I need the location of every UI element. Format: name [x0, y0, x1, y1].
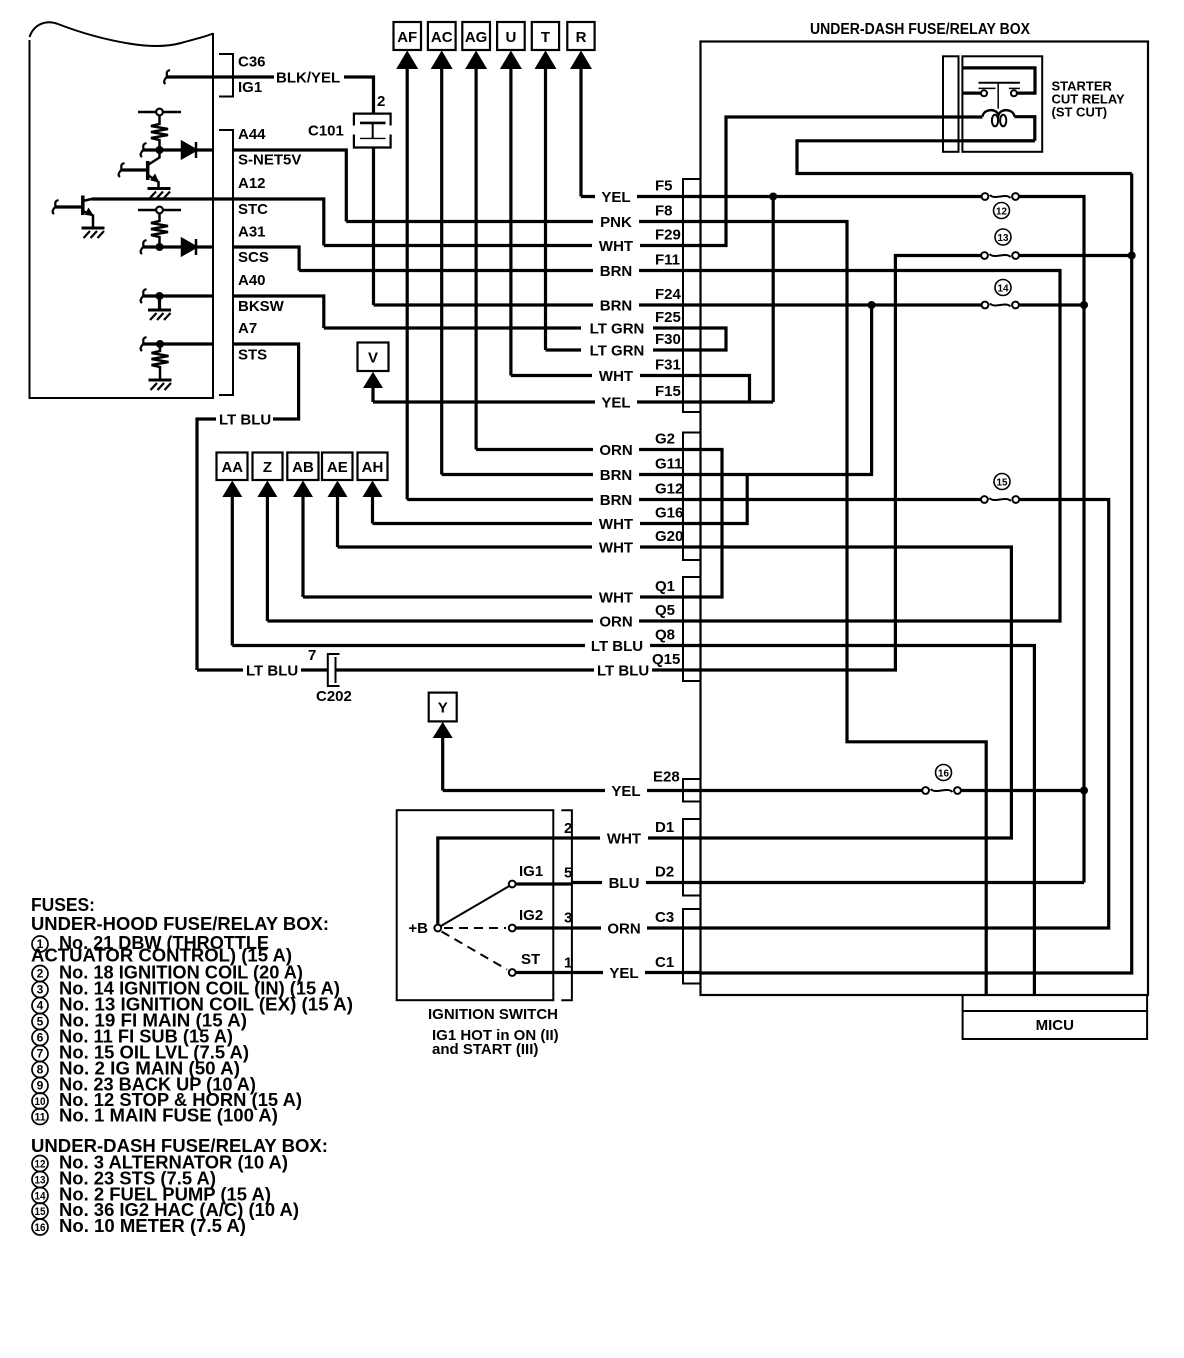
legend circled 15 [32, 1203, 48, 1219]
node terminal circle (pull-up top) SCS [138, 207, 181, 214]
svg-text:Y: Y [438, 700, 448, 717]
svg-text:YEL: YEL [601, 395, 630, 412]
svg-text:E28: E28 [653, 769, 680, 786]
svg-text:4: 4 [37, 999, 44, 1013]
wire G2 to Q1 jumper [701, 450, 723, 598]
svg-text:STS: STS [238, 347, 267, 364]
wire IG1 to pin 5 [516, 882, 572, 885]
legend circled 1 [32, 936, 48, 952]
wire-end squiggle BKSW [141, 289, 147, 303]
wire STS to LT BLU link [197, 344, 299, 670]
SEC_TEXTLIST [31, 895, 353, 1236]
legend circled 12 [32, 1156, 48, 1172]
wire label BRN (G12) [593, 492, 639, 509]
wire-end squiggle IG1 [164, 70, 170, 84]
wire label WHT (G20) [592, 539, 640, 556]
svg-text:U: U [505, 29, 516, 46]
fuse 12 (No.3 ALTERNATOR) [982, 193, 1019, 200]
wire label WHT (F31) [592, 368, 640, 385]
junction F24/G11 node [868, 301, 876, 309]
IG1 contact [509, 881, 516, 888]
svg-text:14: 14 [35, 1191, 47, 1203]
connector bracket G rows [683, 433, 700, 561]
svg-text:AC: AC [431, 29, 453, 46]
svg-text:and START (III): and START (III) [432, 1041, 538, 1058]
relay internal: common feed to contact [963, 68, 1035, 93]
fuse label 15 [994, 474, 1010, 490]
svg-text:LT GRN: LT GRN [590, 343, 645, 360]
svg-text:BLK/YEL: BLK/YEL [276, 70, 340, 87]
wire G20 to D1 [701, 547, 1012, 838]
svg-text:Q5: Q5 [655, 602, 675, 619]
wire C1 row [572, 971, 701, 974]
wire F29 row [324, 244, 701, 247]
relay contact-left terminal wire [962, 91, 980, 94]
svg-text:WHT: WHT [607, 831, 641, 848]
svg-text:12: 12 [35, 1159, 46, 1171]
wire fuse 14 to main vertical bus [1016, 303, 1085, 306]
wire Q8 row [232, 644, 701, 647]
wire label LT BLU (lower) [243, 663, 301, 680]
wire fuse 13 left to Q15 [701, 256, 985, 671]
svg-text:No. 10 METER (7.5 A): No. 10 METER (7.5 A) [59, 1216, 246, 1236]
svg-text:LT BLU: LT BLU [591, 638, 643, 655]
dashed wiper to ST [442, 932, 508, 970]
ground (STS) [149, 379, 172, 382]
svg-text:LT BLU: LT BLU [219, 412, 271, 429]
svg-text:AH: AH [362, 459, 384, 476]
wire G11 row [442, 473, 701, 476]
connector arrow V [358, 343, 389, 403]
wire-end squiggle S-NET5V [141, 143, 147, 157]
ground (BKSW) [148, 309, 171, 312]
legend circled 10 [32, 1093, 48, 1109]
wire F5 row [581, 195, 701, 198]
wire Q8 to MICU [701, 646, 1035, 996]
svg-text:G20: G20 [655, 528, 683, 545]
svg-text:G2: G2 [655, 431, 675, 448]
svg-text:IGNITION SWITCH: IGNITION SWITCH [428, 1006, 558, 1023]
svg-text:F11: F11 [655, 252, 680, 269]
connector bracket D rows [683, 819, 700, 896]
svg-text:V: V [368, 350, 378, 367]
ignition switch box [397, 810, 554, 1000]
wire F24 to fuse 14 [701, 303, 986, 306]
ECM/PCM box outline (torn top edge) [30, 22, 214, 398]
svg-text:MICU: MICU [1036, 1017, 1074, 1034]
svg-text:AF: AF [397, 29, 417, 46]
svg-text:UNDER-HOOD FUSE/RELAY BOX:: UNDER-HOOD FUSE/RELAY BOX: [31, 914, 329, 934]
junction BKSW node [156, 292, 164, 300]
svg-text:YEL: YEL [601, 189, 630, 206]
legend circled 13 [32, 1172, 48, 1188]
svg-text:T: T [541, 29, 550, 46]
relay contact fixed leads [979, 87, 1020, 89]
label STARTER CUT RELAY (ST CUT) [1052, 79, 1126, 120]
connector bracket F rows [683, 179, 700, 412]
relay contact blade [979, 82, 1020, 84]
svg-text:F29: F29 [655, 227, 681, 244]
svg-text:AB: AB [292, 459, 314, 476]
wire STC row inside ECM [92, 197, 233, 200]
wire C3 row [572, 926, 701, 929]
starter cut relay bracket [943, 56, 959, 152]
wire S-NET5V stub [143, 148, 213, 151]
fuse 14 (No.2 FUEL PUMP) [982, 302, 1019, 309]
wire-end squiggle Q2 base [53, 200, 59, 214]
wire label LT GRN (F30) [581, 342, 653, 359]
wire label WHT (D1) [600, 830, 648, 847]
legend circled 4 [32, 998, 48, 1014]
relay blade stem [997, 83, 999, 109]
wire label WHT (G16) [592, 516, 640, 533]
under-dash fuse/relay box outline [701, 42, 1149, 996]
svg-text:LT BLU: LT BLU [246, 663, 298, 680]
wire IG1 BLK/YEL to C101 [233, 77, 374, 114]
wire Q1 row [303, 595, 701, 598]
svg-text:ORN: ORN [599, 614, 632, 631]
wire label WHT (F29) [592, 238, 640, 255]
wire C101 to F24 corner [372, 148, 375, 306]
wire ST to pin 1 [516, 971, 572, 974]
svg-text:IG2: IG2 [519, 907, 543, 924]
svg-text:YEL: YEL [609, 965, 638, 982]
wire F31 to F15 jumper [701, 376, 750, 403]
switch wiper to IG1 [441, 886, 509, 925]
wire fuse 12 to main vertical bus [1016, 197, 1085, 883]
connector C202 symbol [328, 654, 340, 686]
svg-text:Z: Z [263, 459, 272, 476]
legend circled 2 [32, 966, 48, 982]
wire F31 row [511, 374, 701, 377]
wire F5 node down to F15 row [772, 197, 775, 403]
svg-text:WHT: WHT [599, 540, 633, 557]
svg-text:G11: G11 [655, 456, 683, 473]
svg-text:C1: C1 [655, 954, 674, 971]
svg-text:YEL: YEL [611, 783, 640, 800]
svg-text:C202: C202 [316, 688, 352, 705]
dashed wiper to IG2 [444, 927, 506, 929]
wire F8 row [346, 220, 701, 223]
wire-end squiggle Q1 base [119, 163, 125, 177]
wire G16 row [373, 522, 702, 525]
wire +B to pin 2 [438, 838, 572, 924]
svg-text:7: 7 [37, 1047, 44, 1061]
connector bracket C rows [683, 909, 700, 984]
wire label WHT (Q1) [592, 589, 640, 606]
svg-text:LT BLU: LT BLU [597, 663, 649, 680]
junction fuse16/bus node [1080, 787, 1088, 795]
wire label YEL (F5) [595, 189, 637, 206]
svg-text:1: 1 [564, 955, 572, 972]
wire label YEL (F15) [595, 394, 637, 411]
wire BKSW stub [143, 294, 213, 297]
svg-text:SCS: SCS [238, 249, 269, 266]
note IG1 HOT [432, 1027, 559, 1058]
svg-text:C36: C36 [238, 54, 266, 71]
wire F15 row inside box [701, 400, 774, 403]
svg-text:BKSW: BKSW [238, 298, 285, 315]
svg-text:13: 13 [998, 232, 1009, 244]
svg-text:C101: C101 [308, 123, 344, 140]
wire label PNK (F8) [593, 214, 639, 231]
ignition switch connector bracket [561, 810, 572, 1000]
wire IG2 to pin 3 [516, 926, 572, 929]
wire SCS stub [143, 245, 213, 248]
svg-text:A44: A44 [238, 126, 266, 143]
connector arrow AE [322, 453, 353, 548]
connector arrow AF [394, 22, 422, 500]
node terminal circle (pull-up top) S-NET5V [138, 109, 181, 116]
svg-text:Q1: Q1 [655, 578, 675, 595]
legend circled 3 [32, 982, 48, 998]
wire fuse 15 to C3 [701, 500, 1109, 929]
relay coil [983, 110, 1015, 126]
wire F24 node to G11/G16 [701, 305, 872, 475]
svg-text:F15: F15 [655, 383, 681, 400]
wire F8 to MICU [701, 222, 987, 996]
svg-text:G16: G16 [655, 505, 683, 522]
ECM connector bracket A-rows [219, 130, 233, 395]
svg-text:BRN: BRN [600, 467, 633, 484]
wire F30 row [546, 348, 702, 351]
wire BKSW ground drop [158, 296, 161, 310]
wire label BRN (F11) [593, 263, 639, 280]
svg-text:D1: D1 [655, 819, 674, 836]
wire label LT BLU (Q8) [585, 638, 650, 655]
MICU box [963, 996, 1148, 1039]
wire label LT BLU (Q15) [594, 663, 652, 680]
connector arrow AB [287, 453, 318, 598]
svg-text:16: 16 [35, 1222, 46, 1234]
svg-text:A12: A12 [238, 175, 266, 192]
wire D1 row [572, 836, 701, 839]
svg-text:7: 7 [308, 647, 316, 664]
svg-text:15: 15 [997, 477, 1008, 489]
svg-text:BRN: BRN [600, 492, 633, 509]
fuse 13 (No.23 STS) [981, 252, 1019, 259]
svg-text:F25: F25 [655, 309, 681, 326]
svg-text:WHT: WHT [599, 368, 633, 385]
wire STS stub [143, 342, 213, 345]
ground (below Q1 emitter) [148, 187, 171, 190]
junction fuse13/relay bus node [1128, 252, 1136, 260]
svg-text:9: 9 [37, 1079, 44, 1093]
svg-text:AG: AG [465, 29, 488, 46]
fuse label 16 [936, 765, 952, 781]
wire label BLU (D2) [602, 875, 646, 892]
wire F25 row [324, 326, 701, 329]
svg-text:BRN: BRN [600, 263, 633, 280]
svg-text:2: 2 [37, 967, 44, 981]
svg-text:+B: +B [408, 920, 428, 937]
svg-text:11: 11 [35, 1112, 46, 1124]
svg-text:2: 2 [377, 93, 385, 110]
wire-end squiggle STS [141, 337, 147, 351]
svg-text:F5: F5 [655, 178, 673, 195]
wire F29 to relay coil [701, 117, 983, 246]
svg-text:F24: F24 [655, 286, 682, 303]
svg-text:R: R [576, 29, 587, 46]
svg-text:13: 13 [35, 1175, 46, 1187]
connector arrow U [497, 22, 525, 376]
svg-text:6: 6 [37, 1031, 44, 1045]
svg-text:WHT: WHT [599, 516, 633, 533]
legend circled 16 [32, 1219, 48, 1235]
wire label ORN (G2) [593, 442, 639, 459]
wire D2 row inside box [701, 881, 1085, 884]
connector arrow AH [358, 453, 388, 524]
junction SCS node [156, 243, 164, 251]
diode D1 (S-NET5V) [182, 142, 196, 158]
wire fuse 16 to main bus [958, 789, 1085, 792]
wire label BRN (F24) [593, 297, 639, 314]
+B terminal [434, 925, 441, 932]
svg-text:AA: AA [221, 459, 243, 476]
connector arrow AG [462, 22, 490, 450]
junction fuse14/bus node [1080, 301, 1088, 309]
IG2 contact [509, 925, 516, 932]
svg-text:C3: C3 [655, 909, 674, 926]
fuse 16 (No.10 METER) [922, 787, 961, 794]
transistor Q2 (STC driver) [55, 196, 93, 229]
svg-text:F31: F31 [655, 357, 681, 374]
connector bracket Q rows [683, 577, 700, 681]
svg-text:FUSES:: FUSES: [31, 895, 95, 915]
legend circled 11 [32, 1109, 48, 1125]
fuse label 13 [995, 229, 1011, 245]
connector bracket E28 [683, 779, 700, 802]
resistor R1 (S-NET5V pull-up) [151, 116, 168, 150]
svg-text:Q8: Q8 [655, 627, 675, 644]
legend circled 8 [32, 1062, 48, 1078]
wire G12 row [407, 498, 701, 501]
svg-text:3: 3 [37, 983, 44, 997]
relay bottom wire inside body [962, 139, 1034, 142]
starter cut relay body [962, 56, 1042, 152]
wire F24 row [374, 303, 702, 306]
svg-text:ST: ST [521, 951, 540, 968]
svg-text:ORN: ORN [607, 921, 640, 938]
svg-text:15: 15 [35, 1206, 46, 1218]
wire F25 to F30 jumper [701, 328, 727, 350]
wire IG1 stub inside ECM [166, 75, 233, 78]
legend circled 9 [32, 1078, 48, 1094]
wire F15 row [373, 400, 701, 403]
svg-text:A7: A7 [238, 320, 257, 337]
wire E28 row [443, 789, 701, 792]
wire F11 row [299, 269, 701, 272]
svg-text:BLU: BLU [609, 875, 640, 892]
ground (below Q2 emitter) [82, 227, 105, 230]
junction S-NET5V node [156, 146, 164, 154]
resistor R3 (STS) [152, 344, 169, 380]
svg-text:D2: D2 [655, 864, 674, 881]
svg-text:14: 14 [998, 283, 1009, 295]
wire G2 row [476, 448, 701, 451]
svg-text:A40: A40 [238, 272, 266, 289]
connector arrow AC [428, 22, 456, 475]
svg-text:IG1: IG1 [519, 863, 543, 880]
svg-text:BRN: BRN [600, 298, 633, 315]
svg-text:(ST CUT): (ST CUT) [1052, 105, 1108, 120]
wire fuse 13 right to C1 bus [1016, 254, 1132, 257]
connector arrow R [567, 22, 594, 197]
wire relay bottom to fuse 13 node [797, 141, 1132, 174]
svg-text:STC: STC [238, 201, 268, 218]
wire-end squiggle SCS [141, 240, 147, 254]
wire label ORN (C3) [601, 920, 647, 937]
svg-text:3: 3 [564, 910, 572, 927]
svg-text:5: 5 [37, 1015, 44, 1029]
connector arrow Y [429, 693, 457, 791]
wire G20 row [338, 545, 702, 548]
connector C101 symbol [354, 114, 391, 148]
svg-text:AE: AE [327, 459, 348, 476]
fuse label 14 [995, 280, 1011, 296]
svg-text:No. 1 MAIN FUSE (100 A): No. 1 MAIN FUSE (100 A) [59, 1106, 278, 1126]
legend circled 5 [32, 1014, 48, 1030]
svg-text:WHT: WHT [599, 238, 633, 255]
svg-text:ORN: ORN [599, 442, 632, 459]
ECM connector bracket C36/IG1 [219, 54, 233, 97]
svg-text:12: 12 [996, 206, 1007, 218]
wire label LT BLU (upper) [216, 412, 273, 429]
wire label YEL (C1) [603, 965, 645, 982]
junction F5/F15 node [769, 193, 777, 201]
wire S-NET5V to F8 corner [233, 150, 346, 222]
legend circled 7 [32, 1046, 48, 1062]
wire LT BLU to C202 [197, 668, 328, 671]
wire label LT GRN (F25) [581, 320, 653, 337]
svg-text:UNDER-DASH FUSE/RELAY BOX: UNDER-DASH FUSE/RELAY BOX [810, 21, 1030, 38]
relay coil right to bottom terminal [1015, 117, 1035, 141]
svg-text:16: 16 [938, 768, 949, 780]
wire label BRN (G11) [593, 467, 639, 484]
fuse 15 (No.36 IG2 HAC) [981, 496, 1019, 503]
wire G11 to G16 jumper [701, 475, 748, 524]
relay contact circle left [981, 90, 987, 96]
transistor Q1 (S-NET5V driver) [121, 150, 160, 189]
svg-text:S-NET5V: S-NET5V [238, 152, 301, 169]
junction STS node [156, 340, 164, 348]
svg-text:2: 2 [564, 820, 572, 837]
svg-text:G12: G12 [655, 481, 683, 498]
wire F5 to fuse 12 [701, 195, 986, 198]
svg-text:WHT: WHT [599, 590, 633, 607]
fuse label 12 [994, 203, 1010, 219]
svg-text:5: 5 [564, 865, 572, 882]
svg-text:10: 10 [35, 1096, 46, 1108]
connector arrow AA [217, 453, 248, 646]
wire F11 to Q5 [701, 271, 1061, 622]
svg-text:LT GRN: LT GRN [590, 321, 645, 338]
wire relay bus down to C1 [701, 174, 1132, 974]
wire D2 row [572, 881, 701, 884]
connector arrow Z [253, 453, 283, 622]
ST contact [509, 969, 516, 976]
resistor R2 (SCS pull-up) [151, 214, 168, 247]
wire label YEL (E28) [605, 783, 647, 800]
wire SCS to F11 corner [233, 247, 299, 271]
svg-text:8: 8 [37, 1063, 44, 1077]
legend circled 14 [32, 1188, 48, 1204]
svg-text:A31: A31 [238, 224, 266, 241]
wire STC to F29 corner [233, 199, 324, 246]
wire G12 to fuse 15 [701, 498, 985, 501]
wire C202 to Q15 [336, 668, 701, 671]
svg-text:PNK: PNK [600, 214, 632, 231]
